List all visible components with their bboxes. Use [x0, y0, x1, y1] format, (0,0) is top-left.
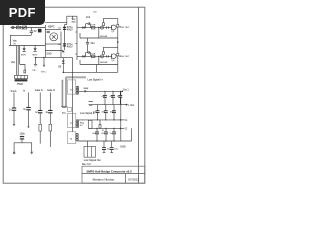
- bridge rectifier BR1: [50, 33, 58, 41]
- node bus tick3: [76, 53, 78, 55]
- capacitor C17: [113, 105, 115, 111]
- svg-text:22n: 22n: [91, 42, 96, 45]
- cable termination: [61, 105, 67, 107]
- wire s1 bottom rail: [89, 104, 127, 106]
- svg-text:GND: GND: [46, 54, 51, 56]
- node ch2: [98, 56, 99, 57]
- svg-text:Gate In: Gate In: [47, 89, 56, 92]
- capacitor C7 loop: [85, 24, 87, 28]
- wire conn leads: [16, 46, 18, 75]
- svg-text:400V: 400V: [67, 45, 73, 48]
- fuse F1: [12, 26, 14, 28]
- wire s2 top rail: [79, 119, 121, 121]
- capacitor CX2: [47, 30, 50, 32]
- diode DB2: [34, 48, 37, 51]
- svg-text:SMPS Half Bridge Composite v3.: SMPS Half Bridge Composite v3.0: [86, 169, 132, 173]
- diode D6: [62, 58, 64, 73]
- node half bridge: [117, 41, 119, 43]
- resistor R3: [103, 23, 105, 26]
- ground: [30, 152, 33, 155]
- aux element U1b: [99, 125, 101, 129]
- wire gnd stub: [45, 50, 63, 52]
- wire lower ac: [9, 45, 45, 47]
- wire bend: [20, 65, 25, 71]
- out arrow 2: [119, 55, 121, 56]
- node s2 out2: [120, 128, 122, 130]
- svg-text:Low Signal In: Low Signal In: [80, 112, 96, 115]
- node s2 out1: [120, 119, 122, 121]
- capacitor C10: [21, 135, 23, 138]
- capacitor C9: [87, 38, 89, 42]
- resistor R8: [39, 124, 42, 131]
- node d6 link: [63, 72, 65, 74]
- resistor R6: [103, 52, 105, 55]
- transistor Q2: [111, 54, 116, 59]
- svg-text:100n: 100n: [110, 111, 116, 113]
- diode DB1: [23, 48, 26, 51]
- node s1 dots: [104, 91, 105, 92]
- svg-text:PWR: PWR: [17, 83, 23, 86]
- wire out bus right: [120, 91, 122, 141]
- transformer T3: [68, 114, 76, 128]
- wire bridge top: [45, 29, 61, 31]
- node vminus: [126, 104, 128, 106]
- svg-text:Gate In: Gate In: [35, 89, 44, 92]
- wire ch1 sub: [80, 37, 118, 39]
- wire top pi: [67, 15, 77, 17]
- node r7 drop: [43, 57, 44, 58]
- capacitor column 4: [49, 93, 51, 111]
- wire main bus: [76, 16, 78, 60]
- wire ch1 main: [77, 27, 112, 29]
- capacitor column 2: [28, 93, 30, 108]
- capacitor row3 C24: [113, 128, 115, 131]
- terminal pad: [13, 152, 15, 154]
- svg-text:Low Signal In: Low Signal In: [88, 79, 104, 82]
- svg-text:MBR: MBR: [84, 88, 89, 90]
- node s3 dots: [96, 140, 97, 141]
- svg-text:KBPC: KBPC: [48, 26, 55, 29]
- capacitor C13: [119, 91, 121, 95]
- svg-text:100n: 100n: [20, 132, 26, 135]
- wire module bus: [72, 58, 74, 132]
- capacitor row3 C22: [96, 128, 98, 131]
- svg-text:MOV: MOV: [21, 54, 27, 56]
- capacitor C31: [105, 55, 107, 57]
- diode D4: [101, 55, 104, 58]
- wire ch2 top link: [103, 46, 117, 48]
- transformer T2: [68, 80, 76, 94]
- capacitor row3 C23: [105, 128, 107, 131]
- wire link row: [63, 71, 118, 73]
- wire out column: [117, 19, 119, 73]
- cable duct double line: [66, 76, 86, 78]
- ground bar s1: [89, 101, 94, 103]
- svg-text:2n2: 2n2: [86, 16, 91, 19]
- diode D3: [82, 55, 85, 58]
- capacitor C26: [111, 141, 113, 147]
- wire ch1 top link: [103, 18, 117, 20]
- capacitor C15: [97, 105, 99, 111]
- diode D2: [101, 26, 104, 29]
- svg-text:10R: 10R: [91, 25, 95, 27]
- svg-text:400V: 400V: [67, 29, 73, 32]
- tiny labels as smudges: [9, 12, 135, 166]
- capacitor C25: [103, 141, 105, 147]
- capacitor C5: [63, 26, 66, 28]
- relay RL1: [23, 26, 27, 29]
- svg-text:V- Out: V- Out: [127, 104, 134, 107]
- capacitor C6: [63, 43, 66, 45]
- svg-text:NTC: NTC: [41, 71, 46, 73]
- node bus tick2: [76, 43, 78, 45]
- svg-text:10R: 10R: [91, 54, 95, 56]
- out arrow 1: [119, 26, 121, 57]
- svg-text:HV OUT: HV OUT: [121, 56, 130, 58]
- wire s1 top rail: [79, 90, 123, 92]
- capacitor column 1: [13, 93, 15, 108]
- svg-text:Out 1: Out 1: [123, 89, 129, 92]
- svg-text:1N4148: 1N4148: [100, 62, 108, 64]
- sheet frame: [3, 7, 145, 183]
- wire badge drop: [44, 25, 46, 57]
- resistor R9: [49, 124, 52, 131]
- svg-text:GND: GND: [120, 146, 126, 149]
- node mov gnd: [35, 57, 36, 58]
- capacitor C11: [104, 91, 106, 95]
- node ch1: [98, 27, 99, 28]
- node s1 out: [122, 91, 124, 93]
- wire vac feed: [35, 57, 73, 59]
- wire neutral drop: [9, 35, 11, 45]
- resistor R1: [91, 26, 95, 29]
- relay RL2: [38, 29, 42, 33]
- node bus tick1: [76, 31, 78, 33]
- svg-text:Low Signal Out: Low Signal Out: [84, 159, 101, 162]
- regulator U1: [88, 120, 92, 128]
- wire AC line top: [11, 27, 46, 29]
- zener Z1: [117, 24, 119, 27]
- block X1: [84, 146, 96, 157]
- capacitor C12: [112, 91, 114, 95]
- svg-text:HV OUT: HV OUT: [121, 27, 130, 29]
- wire bulk bus: [60, 32, 62, 58]
- svg-text:Snub: Snub: [11, 90, 17, 93]
- choke L1: [16, 26, 21, 29]
- svg-text:1N4148: 1N4148: [100, 36, 108, 38]
- zener Z2: [117, 53, 119, 56]
- wire hv rail: [45, 22, 67, 24]
- svg-text:Mariano Nicolau: Mariano Nicolau: [93, 178, 115, 182]
- svg-text:MOV: MOV: [33, 54, 39, 56]
- capacitor CX1: [30, 28, 32, 31]
- resistor R4: [91, 55, 95, 58]
- wire cap branch: [64, 25, 66, 51]
- inner margin line: [138, 7, 140, 183]
- svg-text:Tr1: Tr1: [62, 112, 66, 115]
- wire ch2 sub: [80, 64, 118, 66]
- transformer T4: [68, 132, 76, 144]
- title block: [82, 166, 145, 183]
- transistor Q1: [111, 25, 116, 30]
- node s2 dots: [97, 119, 98, 120]
- capacitor column 3: [39, 93, 41, 111]
- connector J1: [15, 75, 28, 78]
- wire s3 rail: [78, 140, 131, 142]
- termination box: [67, 107, 71, 111]
- svg-text:07/2012: 07/2012: [128, 178, 139, 182]
- wire ch2 main: [77, 55, 112, 57]
- wire bridge bottom: [45, 43, 61, 45]
- capacitor C30: [105, 27, 107, 29]
- capacitor C16: [105, 105, 107, 111]
- fuse box: [24, 70, 26, 73]
- svg-text:Rev 3.0: Rev 3.0: [82, 163, 91, 166]
- diode D1: [82, 26, 85, 29]
- capacitor C8 loop: [85, 53, 87, 57]
- wire c10 loop: [14, 143, 32, 152]
- PDF badge: [0, 0, 45, 25]
- wire s2 bottom rail: [88, 127, 120, 129]
- diode D7: [85, 90, 88, 93]
- wire AC line bottom: [10, 34, 31, 36]
